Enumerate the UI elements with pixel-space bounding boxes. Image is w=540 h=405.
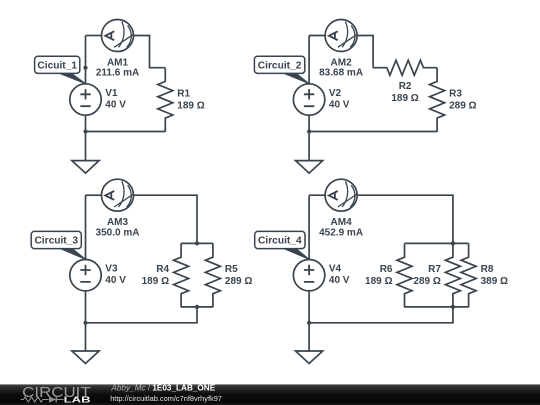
resistor R1 xyxy=(158,68,173,132)
wire bottom bus R6 R7 R8 xyxy=(405,306,469,308)
resistor R2 xyxy=(373,60,437,75)
svg-text:40 V: 40 V xyxy=(105,100,126,111)
svg-text:189 Ω: 189 Ω xyxy=(365,276,392,287)
wire V3 minus to ground xyxy=(85,291,87,352)
label V3 value 40 V xyxy=(105,264,126,287)
junction node V1- / R1 / ground xyxy=(83,129,87,133)
wire AM3 to parallel bus xyxy=(134,195,198,243)
svg-text:211.6 mA: 211.6 mA xyxy=(96,68,139,79)
voltage source V2 xyxy=(293,84,324,115)
label AM4 value 452.9 mA xyxy=(319,217,363,238)
svg-text:V3: V3 xyxy=(105,264,118,275)
wire V2 minus to ground xyxy=(308,115,310,161)
wire AM4 left lead xyxy=(309,194,325,196)
svg-text:Circuit_4: Circuit_4 xyxy=(258,236,302,247)
ammeter AM1 xyxy=(102,20,134,52)
label R6 value 189 ohm xyxy=(365,264,393,287)
svg-text:40 V: 40 V xyxy=(329,100,350,111)
wire V4 minus to ground xyxy=(308,291,310,352)
junction label anchor Cicuit_1 xyxy=(83,66,87,70)
ground GND2 xyxy=(296,161,323,174)
wire node to V2 plus xyxy=(308,36,310,84)
CircuitLab logo: resistor-diode glyph xyxy=(21,397,64,403)
svg-text:289 Ω: 289 Ω xyxy=(225,276,252,287)
ammeter AM4 xyxy=(325,179,357,211)
svg-text:452.9 mA: 452.9 mA xyxy=(319,227,363,238)
svg-text:AM2: AM2 xyxy=(331,57,353,68)
svg-text:V1: V1 xyxy=(105,88,118,99)
svg-text:83.68 mA: 83.68 mA xyxy=(319,68,363,79)
ground GND1 xyxy=(72,161,99,174)
label V2 value 40 V xyxy=(329,88,350,111)
wire top bus R6 R7 R8 xyxy=(405,242,469,244)
junction top bus xyxy=(195,241,199,245)
svg-text:289 Ω: 289 Ω xyxy=(449,100,476,111)
label R1 value 189 ohm xyxy=(177,89,204,112)
wire node to V3 plus xyxy=(85,195,87,259)
label R7 value 289 ohm xyxy=(413,264,441,287)
label R8 value 389 ohm xyxy=(481,264,508,287)
wire bus to node xyxy=(309,307,453,323)
svg-text:Abby_Mc / 1E03_LAB_ONE: Abby_Mc / 1E03_LAB_ONE xyxy=(110,383,215,392)
label callout Circuit_3 xyxy=(31,231,85,259)
label AM3 value 350.0 mA xyxy=(96,217,140,238)
label R4 value 189 ohm xyxy=(142,264,170,287)
svg-text:http://circuitlab.com/c7nf8vrh: http://circuitlab.com/c7nf8vrhyfk97 xyxy=(110,394,222,403)
resistor R6 xyxy=(397,243,412,307)
svg-text:LAB: LAB xyxy=(64,395,91,405)
svg-text:V2: V2 xyxy=(329,88,342,99)
svg-text:189 Ω: 189 Ω xyxy=(142,276,169,287)
resistor R4 xyxy=(174,243,189,307)
wire AM1 left lead xyxy=(86,35,102,37)
svg-text:189 Ω: 189 Ω xyxy=(391,93,418,104)
svg-text:R6: R6 xyxy=(380,264,393,275)
wire R3 bottom to node xyxy=(309,131,437,133)
svg-text:R3: R3 xyxy=(449,89,462,100)
svg-text:R4: R4 xyxy=(156,264,169,275)
junction node V2- / R3 / ground xyxy=(307,129,311,133)
svg-text:350.0 mA: 350.0 mA xyxy=(96,227,140,238)
label callout Circuit_4 xyxy=(255,231,309,259)
label AM2 value 83.68 mA xyxy=(319,57,363,78)
ground GND3 xyxy=(72,351,99,364)
wire AM1 to R1 top xyxy=(134,36,166,68)
wire V1 minus to ground xyxy=(85,115,87,161)
svg-text:Circuit_2: Circuit_2 xyxy=(258,61,302,72)
voltage source V1 xyxy=(70,84,101,115)
junction node V4- / bus / ground xyxy=(307,321,311,325)
svg-text:R8: R8 xyxy=(481,264,494,275)
label R5 value 289 ohm xyxy=(225,264,252,287)
svg-text:AM1: AM1 xyxy=(107,57,129,68)
wire AM3 left lead xyxy=(86,194,102,196)
label V4 value 40 V xyxy=(329,264,350,287)
wire AM2 left lead xyxy=(309,35,325,37)
wire top bus R4 R5 xyxy=(181,242,213,244)
svg-text:R5: R5 xyxy=(225,264,238,275)
junction top bus 2 xyxy=(451,241,455,245)
label AM1 value 211.6 mA xyxy=(96,57,139,78)
label R2 value 189 ohm xyxy=(391,81,418,104)
resistor R5 xyxy=(205,243,220,307)
label callout Circuit_2 xyxy=(254,56,309,83)
wire bus to node xyxy=(86,307,198,323)
resistor R3 xyxy=(430,68,445,132)
wire AM2 to R2 xyxy=(357,36,373,68)
voltage source V4 xyxy=(293,260,324,291)
ground GND4 xyxy=(296,351,323,364)
svg-text:Circuit_3: Circuit_3 xyxy=(34,236,78,247)
wire bottom bus R4 R5 xyxy=(181,306,213,308)
wire R1 bottom to node xyxy=(86,131,166,133)
label callout Cicuit_1 xyxy=(35,56,86,83)
wire AM4 to parallel bus xyxy=(357,195,453,243)
svg-text:289 Ω: 289 Ω xyxy=(413,276,440,287)
ammeter AM3 xyxy=(102,179,134,211)
svg-text:R1: R1 xyxy=(177,89,190,100)
wire node to V4 plus xyxy=(308,195,310,259)
svg-text:40 V: 40 V xyxy=(105,275,126,286)
ammeter AM2 xyxy=(325,20,357,52)
svg-text:40 V: 40 V xyxy=(329,275,350,286)
svg-text:189 Ω: 189 Ω xyxy=(177,100,204,111)
svg-text:389 Ω: 389 Ω xyxy=(481,276,508,287)
svg-text:V4: V4 xyxy=(329,264,342,275)
resistor R7 xyxy=(445,243,460,307)
wire node to V1 plus xyxy=(85,36,87,84)
resistor R8 xyxy=(461,243,476,307)
junction bottom bus 2 xyxy=(451,305,455,309)
svg-text:Cicuit_1: Cicuit_1 xyxy=(37,61,77,72)
voltage source V3 xyxy=(70,260,101,291)
junction bottom bus xyxy=(195,305,199,309)
svg-text:R7: R7 xyxy=(428,264,441,275)
label R3 value 289 ohm xyxy=(449,89,476,112)
svg-text:R2: R2 xyxy=(399,81,412,92)
svg-text:AM4: AM4 xyxy=(331,217,353,228)
label V1 value 40 V xyxy=(105,88,126,111)
junction node V3- / bus / ground xyxy=(83,321,87,325)
svg-text:AM3: AM3 xyxy=(107,217,129,228)
